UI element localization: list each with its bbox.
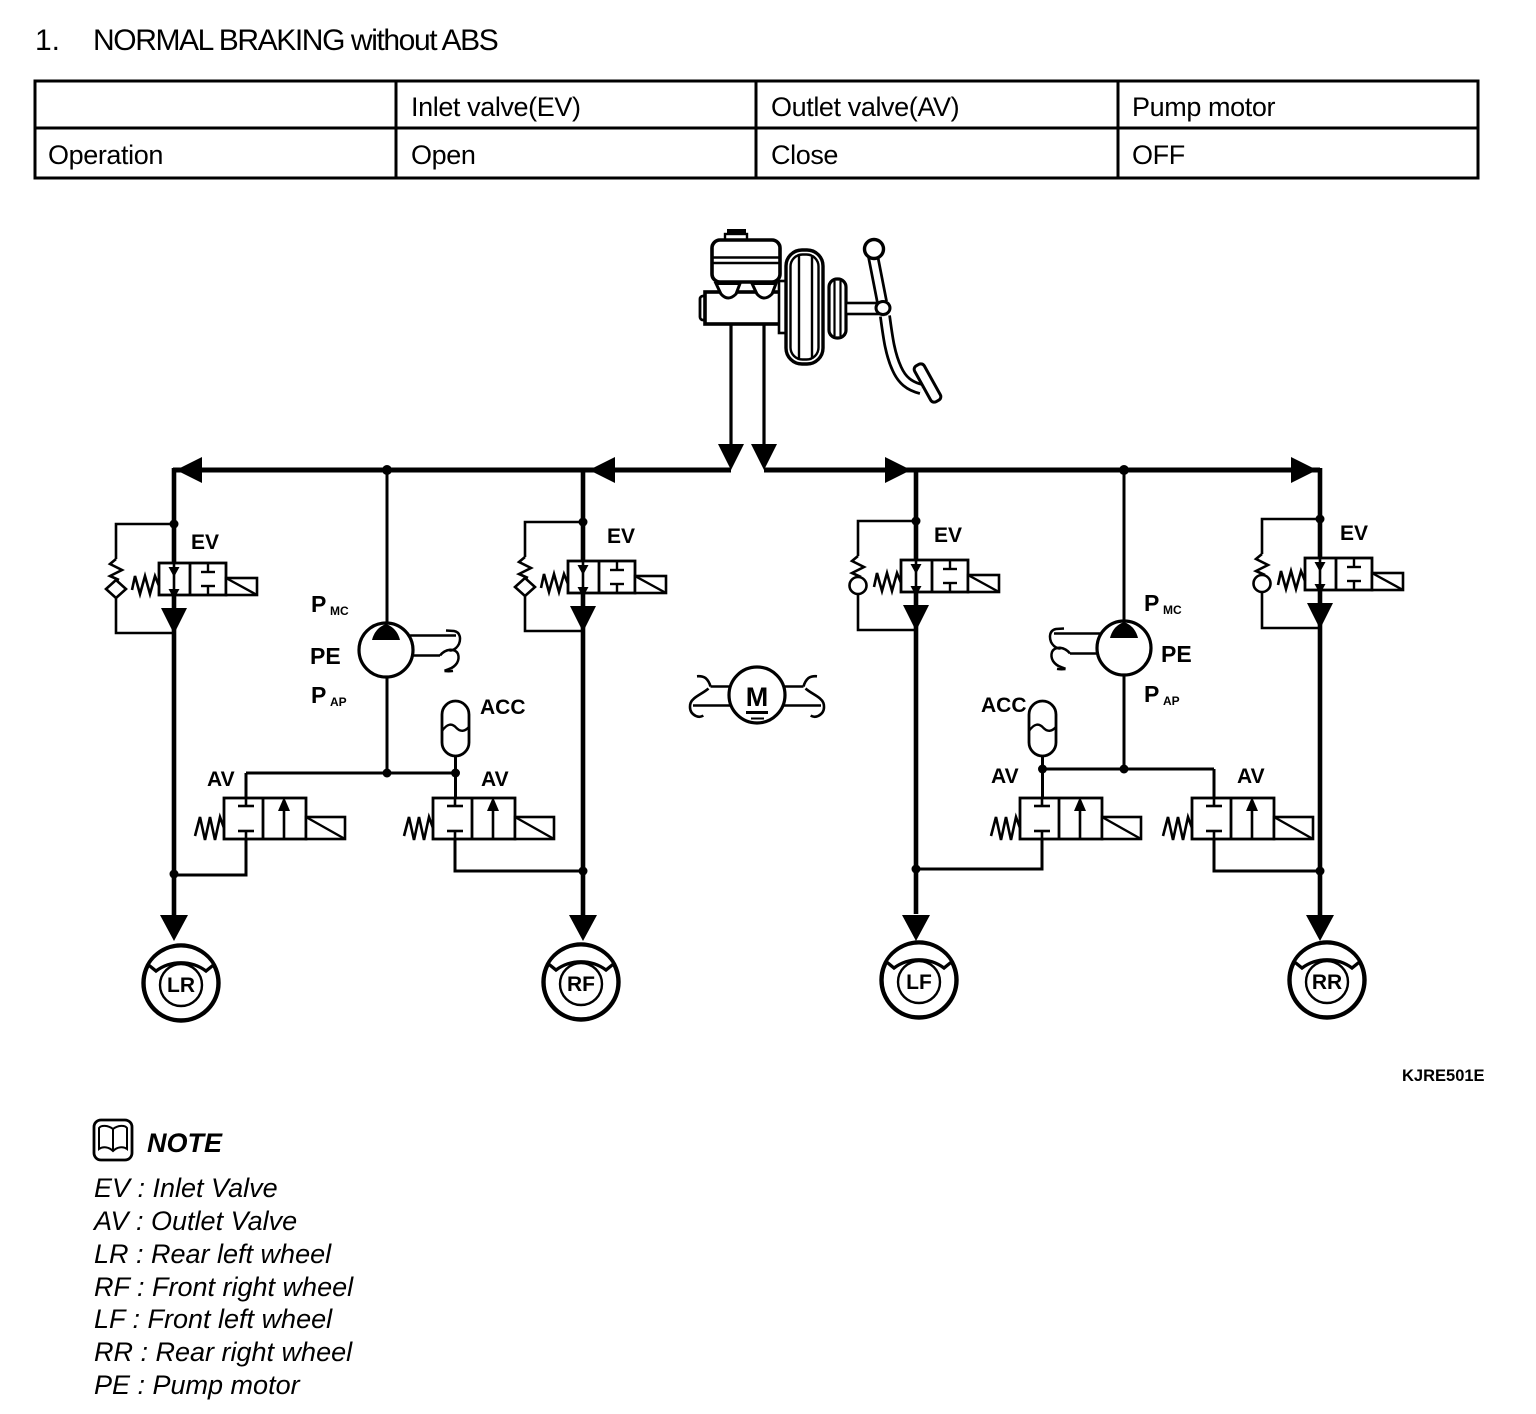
label P MC (left) [311,591,349,618]
wheel LR [144,946,219,1021]
svg-text:LF : Front left wheel: LF : Front left wheel [94,1304,333,1334]
svg-text:AP: AP [1163,694,1180,708]
svg-text:LR: LR [167,974,195,997]
brake fluid reservoir cap [727,229,746,235]
svg-text:OFF: OFF [1132,140,1185,170]
svg-text:NORMAL BRAKING without ABS: NORMAL BRAKING without ABS [93,24,498,57]
wire: supply bus right segment [764,457,1320,483]
push rod joint [876,302,890,315]
svg-text:RF: RF [567,973,595,996]
svg-text:P: P [1144,590,1159,616]
label P AP (left) [311,682,347,709]
note icon (book) [94,1120,132,1160]
flow arrow below EV (RF) [570,606,596,632]
wire: master cylinder primary outlet [718,324,744,470]
operation table [35,81,1478,178]
wire: RR AV return [1214,839,1325,876]
svg-text:NOTE: NOTE [147,1128,223,1158]
wire: master cylinder secondary outlet [751,324,777,470]
svg-text:RR: RR [1312,971,1342,994]
brake pedal arm [873,256,921,389]
wire: supply bus left segment [173,457,731,483]
flow arrow below EV (RR) [1307,603,1333,629]
svg-text:P: P [311,682,326,708]
svg-text:EV: EV [1340,522,1368,545]
wire: LF AV return [912,839,1043,874]
wheel RR [1290,943,1365,1018]
push rod [846,303,878,314]
svg-text:LF: LF [906,971,932,994]
booster link [779,281,787,333]
inlet valve EV (RR) with bypass check valve [1254,515,1404,629]
inlet valve EV (LR) with bypass check valve [106,520,257,634]
svg-text:MC: MC [1163,603,1182,617]
wire: LR circuit vertical [172,468,177,916]
svg-text:RR : Rear right wheel: RR : Rear right wheel [94,1337,353,1367]
svg-text:EV: EV [607,525,635,548]
svg-text:P: P [1144,681,1159,707]
accumulator ACC (left) [442,701,469,756]
pump motor M [690,667,824,723]
flow arrow into wheel RR [1306,915,1334,941]
brake fluid reservoir [712,240,780,282]
wire: right pump feed [1119,465,1129,769]
label P AP (right) [1144,681,1180,708]
accumulator ACC (right) [1029,701,1056,756]
table text [48,92,1275,170]
svg-text:PE : Pump motor: PE : Pump motor [94,1370,301,1400]
flow arrow into wheel LR [160,915,188,941]
svg-text:AV: AV [481,768,509,791]
flow arrow below EV (LR) [161,608,187,634]
booster rear shell [829,279,846,338]
reservoir ports [716,284,776,299]
brake booster [786,250,823,364]
svg-text:AV: AV [207,768,235,791]
svg-text:P: P [311,591,326,617]
legend [92,1173,354,1400]
wire: left AV manifold [246,756,460,806]
svg-text:Close: Close [771,140,838,170]
svg-text:Operation: Operation [48,140,163,170]
svg-text:EV: EV [934,524,962,547]
svg-text:MC: MC [330,604,349,618]
wire: left pump feed [382,465,392,773]
svg-text:Open: Open [411,140,475,170]
svg-text:ACC: ACC [480,696,526,719]
outlet valve AV (RF) [404,797,554,840]
svg-text:Pump motor: Pump motor [1132,92,1275,122]
wire: LF circuit vertical [914,470,919,914]
wire: LR AV return [170,839,247,879]
svg-text:ACC: ACC [981,694,1027,717]
svg-text:1.: 1. [35,24,60,57]
label M [746,682,769,719]
svg-text:AV: AV [991,765,1019,788]
wheel LF [882,943,957,1018]
svg-text:RF : Front right wheel: RF : Front right wheel [94,1272,354,1302]
pedal pivot pin [865,240,884,259]
svg-text:M: M [746,682,769,712]
svg-text:EV: EV [191,531,219,554]
flow arrow below EV (LF) [903,605,929,631]
pump PE (left) [359,623,460,677]
wire: RF AV return [455,839,588,876]
svg-text:PE: PE [310,643,341,669]
svg-text:AV : Outlet Valve: AV : Outlet Valve [92,1206,297,1236]
svg-text:Inlet valve(EV): Inlet valve(EV) [411,92,581,122]
svg-text:KJRE501E: KJRE501E [1402,1067,1485,1085]
wheel RF [544,945,619,1020]
svg-text:Outlet valve(AV): Outlet valve(AV) [771,92,959,122]
wire: right AV manifold [1038,756,1214,806]
master cylinder body [700,292,780,324]
flow arrow into wheel LF [902,915,930,941]
outlet valve AV (LF) [991,797,1141,840]
svg-text:AP: AP [330,695,347,709]
label P MC (right) [1144,590,1182,617]
outlet valve AV (RR) [1163,797,1313,840]
inlet valve EV (LF) with bypass check valve [850,517,1000,631]
wire: RF circuit vertical [581,470,586,916]
svg-text:AV: AV [1237,765,1265,788]
pedal pad [913,362,942,403]
svg-text:LR : Rear left wheel: LR : Rear left wheel [94,1239,332,1269]
svg-text:EV : Inlet Valve: EV : Inlet Valve [94,1173,278,1203]
svg-text:PE: PE [1161,641,1192,667]
wire: RR circuit vertical [1318,468,1323,916]
flow arrow into wheel RF [569,915,597,941]
inlet valve EV (RF) with bypass check valve [515,518,666,632]
outlet valve AV (LR) [195,797,345,840]
pump PE (right) [1050,621,1151,675]
